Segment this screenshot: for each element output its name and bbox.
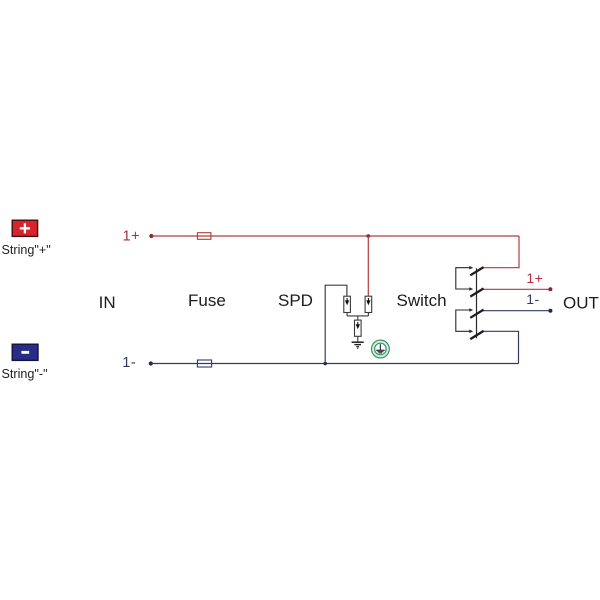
svg-text:Switch: Switch (397, 291, 447, 310)
svg-text:String"+": String"+" (2, 243, 51, 257)
wire negative switch output 1- (482, 310, 550, 312)
wire positive to switch input (483, 236, 519, 268)
fuse F2 negative (197, 360, 211, 367)
switch contact arrow 4 (469, 330, 473, 334)
switch blade 3 (470, 310, 483, 318)
ground symbol (352, 342, 364, 348)
switch blade 4 (470, 331, 483, 339)
fuse F1 positive (197, 233, 211, 240)
node dot negative input (149, 361, 153, 365)
svg-text:SPD: SPD (278, 291, 313, 310)
switch pole 1 bracket (456, 268, 472, 289)
svg-text:1+: 1+ (123, 228, 141, 244)
wire positive switch output 1+ (482, 288, 550, 290)
wire SPD bottoms join (347, 313, 368, 321)
wire negative to switch input (483, 331, 519, 363)
node junction positive to SPD (367, 234, 371, 238)
wire negative bus (151, 363, 519, 365)
string plus terminal box (12, 220, 37, 236)
svg-text:1-: 1- (526, 291, 539, 307)
node dot positive output (548, 287, 552, 291)
switch shaft (476, 268, 478, 338)
svg-text:1-: 1- (122, 355, 136, 371)
svg-text:Fuse: Fuse (188, 291, 226, 310)
switch contact arrow 1 (469, 266, 473, 270)
switch blade 1 (470, 267, 483, 275)
switch contact arrow 2 (469, 287, 473, 291)
node junction negative to SPD (323, 362, 327, 366)
wire positive bus (151, 235, 519, 237)
node dot positive input (149, 234, 153, 238)
string minus terminal box (12, 344, 38, 360)
switch pole 2 bracket (456, 310, 472, 331)
wire positive SPD branch (367, 236, 369, 296)
surge arrester SPD3 center (355, 320, 362, 336)
switch contact arrow 3 (469, 308, 473, 312)
surge arrester SPD1 left (344, 296, 351, 312)
svg-text:1+: 1+ (526, 270, 543, 286)
surge arrester SPD2 right (365, 296, 372, 312)
wire SPD3 to ground (357, 336, 359, 342)
wire negative SPD branch (325, 285, 347, 363)
node dot negative output (548, 309, 552, 313)
svg-text:OUT: OUT (563, 293, 599, 312)
protective earth symbol (green) (372, 340, 390, 358)
svg-text:IN: IN (99, 293, 116, 312)
svg-text:String"-": String"-" (2, 367, 48, 381)
switch blade 2 (470, 288, 483, 296)
